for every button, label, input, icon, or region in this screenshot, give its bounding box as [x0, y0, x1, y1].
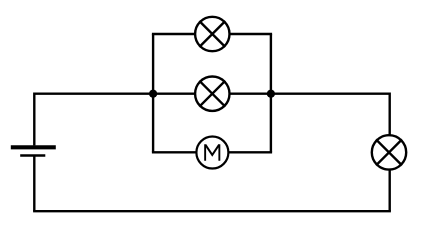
wire left branch vertical [152, 34, 154, 152]
wire top branch left segment [152, 33, 196, 35]
lamp L2 middle [195, 77, 229, 111]
node B right junction [267, 90, 275, 98]
wire top branch right segment [229, 33, 272, 35]
wire middle lamp to right junction [229, 92, 271, 94]
wire battery negative lead [33, 156, 35, 211]
wire bottom return [33, 210, 391, 212]
lamp L3 right [372, 135, 406, 169]
wire right junction to top-right corner and down to right lamp [271, 94, 390, 136]
battery B1 [11, 147, 56, 155]
wire right branch vertical [270, 34, 272, 152]
motor M1 [196, 137, 228, 169]
node A left junction [149, 90, 157, 98]
wire motor branch right segment [228, 151, 272, 153]
lamp L1 top [195, 17, 229, 51]
wire battery positive lead up and right to left junction [34, 94, 153, 146]
wire left junction to middle lamp [153, 92, 196, 94]
wire motor branch left segment [152, 151, 197, 153]
wire right lamp bottom lead [389, 170, 391, 212]
